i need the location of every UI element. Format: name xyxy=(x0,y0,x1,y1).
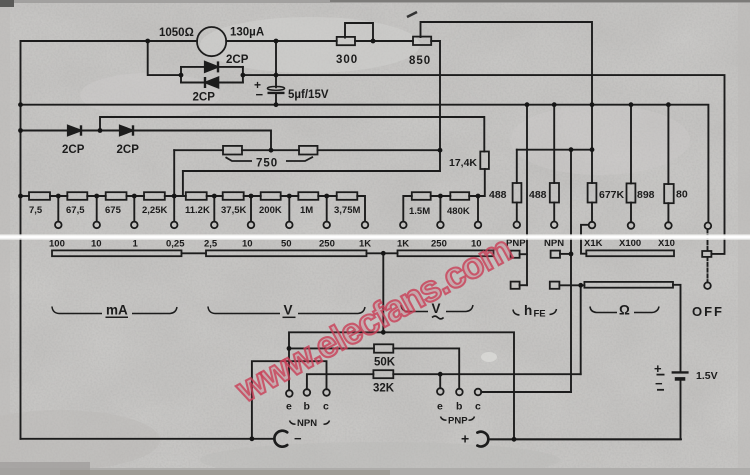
svg-text:2CP: 2CP xyxy=(62,144,85,156)
svg-text:67,5: 67,5 xyxy=(66,205,85,216)
wire: 488b vertical xyxy=(553,105,555,183)
PNP socket c xyxy=(475,389,482,396)
V bracket xyxy=(208,307,280,314)
wire: top main line meter to 300 xyxy=(226,40,336,42)
svg-text:3,75M: 3,75M xyxy=(334,205,360,216)
wire: contact drops mA section xyxy=(57,196,59,222)
minus terminal arc xyxy=(274,431,287,447)
PNP socket b xyxy=(456,389,463,396)
svg-text:2CP: 2CP xyxy=(117,144,140,156)
wire: left border vertical xyxy=(20,41,22,439)
wire: minus to NPN c line y361 xyxy=(252,361,327,439)
wire: battery minus down to bottom line xyxy=(491,381,681,439)
svg-text:h: h xyxy=(524,303,532,318)
wire: 898 vertical xyxy=(630,105,632,184)
resistor 675 xyxy=(106,192,127,200)
junction dots xyxy=(145,39,150,44)
mA bracket xyxy=(52,307,102,314)
wire: line y117 to 17.4K xyxy=(100,117,484,152)
resistor 7.5 xyxy=(29,192,50,200)
wire: 750 line left end down to chain xyxy=(173,150,175,196)
svg-text:32K: 32K xyxy=(373,383,395,395)
contact square PNP1 xyxy=(511,251,520,258)
wire: long line y104.7 xyxy=(21,105,709,222)
resistor 3.75M xyxy=(337,192,358,200)
battery B1 plate short xyxy=(675,377,686,381)
V~ bracket xyxy=(401,305,428,312)
wire: long line y75 from diode node to right edge area xyxy=(243,75,725,254)
resistor 200K xyxy=(261,192,281,200)
wire: top main line 300 to 850 xyxy=(355,40,413,42)
wire: diode pair left rail xyxy=(180,67,182,83)
resistor 17.4K xyxy=(480,152,489,170)
svg-text:1.5M: 1.5M xyxy=(409,206,430,217)
svg-text:+: + xyxy=(461,431,469,447)
wire: 750 line y150.2 xyxy=(174,149,223,151)
meter M1 130uA xyxy=(197,27,226,56)
wire: top main line left of meter xyxy=(21,40,198,42)
resistor 32K xyxy=(373,370,393,378)
wire: x289 vertical to NPN e xyxy=(288,348,290,390)
wire: 677K to X1K contact xyxy=(591,203,593,222)
svg-text:0,25: 0,25 xyxy=(166,239,185,250)
wire: 488a vertical top xyxy=(516,150,518,183)
white scan stripe xyxy=(0,235,750,239)
wire: 850 right end then down to y171 xyxy=(431,41,440,171)
svg-text:e: e xyxy=(286,401,292,413)
diode D2 2CP (points left) xyxy=(205,77,218,87)
resistor 11.2K xyxy=(186,192,207,200)
svg-text:−: − xyxy=(294,431,302,446)
wire: bar1-bar2 link xyxy=(182,252,207,254)
svg-text:17,4K: 17,4K xyxy=(449,157,477,169)
OFF contact circle top xyxy=(705,223,712,230)
svg-text:37,5K: 37,5K xyxy=(221,205,246,216)
white correction blob xyxy=(481,352,497,362)
wire: plus terminal line to battery corner xyxy=(491,438,682,440)
svg-text:250: 250 xyxy=(431,239,447,250)
svg-text:Ω: Ω xyxy=(619,303,630,318)
wire: bottom-left line to minus terminal xyxy=(21,438,273,440)
svg-text:50K: 50K xyxy=(374,357,396,369)
resistor 480K xyxy=(450,192,469,200)
wire: PNP e drop xyxy=(439,374,441,388)
svg-text:NPN: NPN xyxy=(297,418,317,429)
750 decorative ticks xyxy=(226,157,253,161)
wire: PNP2 contact link xyxy=(520,284,527,286)
wire: chain right end drop to contact xyxy=(357,196,365,222)
resistor 750 box1 xyxy=(223,146,242,155)
hFE bracket xyxy=(513,310,520,316)
resistor 1.5M xyxy=(412,192,431,200)
bottom edge shading xyxy=(0,468,750,475)
diode D4 2CP (points right) xyxy=(120,126,133,136)
wire: 50K line xyxy=(289,347,374,349)
wire: NPN1 contact to x571 xyxy=(560,253,571,255)
svg-text:750: 750 xyxy=(256,158,278,170)
wire: V~ chain right + jog up to 17.4K xyxy=(469,169,485,196)
svg-text:OFF: OFF xyxy=(692,304,724,319)
svg-text:1050Ω: 1050Ω xyxy=(159,27,194,39)
resistor 80 xyxy=(664,184,674,203)
svg-text:11.2K: 11.2K xyxy=(185,205,210,216)
wire: diode pair top rail xyxy=(181,66,243,68)
wire: x527 vertical to hFE contacts xyxy=(526,105,528,286)
resistor 1M xyxy=(298,192,318,200)
wire: OFF dashed link lower xyxy=(707,257,709,282)
wire: diode line y130.5 xyxy=(21,131,272,151)
NPN bracket ticks xyxy=(290,421,296,425)
svg-text:−: − xyxy=(256,87,264,102)
svg-text:130µA: 130µA xyxy=(230,27,264,39)
stray mark top xyxy=(407,12,417,17)
resistor 850 xyxy=(413,37,431,45)
NPN socket e xyxy=(286,390,293,397)
svg-text:1.5V: 1.5V xyxy=(696,370,718,382)
contact square NPN1 xyxy=(551,251,560,258)
svg-text:488: 488 xyxy=(529,189,547,201)
wire: PNP c to x571 xyxy=(481,391,571,393)
switch contact circles row1 xyxy=(55,222,62,229)
resistor 898 xyxy=(627,183,636,202)
plus terminal arc xyxy=(477,432,488,447)
svg-text:300: 300 xyxy=(336,54,358,66)
svg-text:FE: FE xyxy=(534,309,546,320)
selector bar ohm row1 xyxy=(586,250,674,256)
svg-text:2,5: 2,5 xyxy=(204,239,218,250)
wire: 488a to PNP contact xyxy=(516,203,518,222)
wire: diode pair bottom rail xyxy=(181,82,243,84)
svg-text:10: 10 xyxy=(242,239,253,250)
svg-text:PNP: PNP xyxy=(448,416,468,427)
resistor 677K xyxy=(588,183,597,203)
svg-text:1K: 1K xyxy=(397,239,409,250)
svg-text:50: 50 xyxy=(281,239,292,250)
dark left column xyxy=(0,0,10,475)
resistor 37.5K xyxy=(223,192,244,200)
svg-text:mA: mA xyxy=(106,303,128,318)
svg-text:200K: 200K xyxy=(259,205,282,216)
svg-text:+: + xyxy=(654,361,662,376)
wire: ohm bar2 right to battery vertical xyxy=(673,285,681,372)
svg-text:V: V xyxy=(284,303,293,318)
wire: x580.7 vertical to 32K line xyxy=(580,285,582,374)
wire: y332 line xyxy=(289,332,514,439)
wire: 50K right to PNP b xyxy=(393,348,459,388)
light patch top center xyxy=(200,17,420,73)
svg-text:100: 100 xyxy=(49,239,65,250)
NPN socket c xyxy=(323,389,330,396)
battery plus underline xyxy=(657,374,665,376)
svg-text:c: c xyxy=(475,401,481,413)
wire: NPN b to 32K line xyxy=(307,374,374,389)
resistor 488 a xyxy=(513,183,522,203)
svg-text:1: 1 xyxy=(133,239,139,250)
ohm bracket xyxy=(590,307,617,313)
contact square PNP2 xyxy=(511,282,520,289)
wire: 80 vertical xyxy=(667,105,669,184)
wire: diode pair right rail xyxy=(242,67,244,83)
resistor 750 box2 xyxy=(299,146,318,155)
wire: NPN2 contact to ohm bar2 xyxy=(559,284,584,286)
wire: resistor chain base y196 xyxy=(21,195,30,197)
resistor 300 xyxy=(337,37,355,45)
contact square OFF xyxy=(702,251,711,257)
svg-text:1K: 1K xyxy=(359,239,371,250)
resistor 2.25K xyxy=(144,192,165,200)
battery B1 plate long xyxy=(672,371,689,373)
wire: 750 line right of box2 to x440 xyxy=(318,149,441,151)
wire: y171 left end down to chain xyxy=(182,171,184,196)
wire: X1K contact link to ohm bar xyxy=(581,225,589,254)
capacitor C1 5uf/15V xyxy=(267,87,284,91)
wire: 750 line between boxes xyxy=(242,149,299,151)
wire: bar junction down to y332 xyxy=(382,253,384,332)
svg-text:250: 250 xyxy=(319,239,335,250)
wire: meter branch down at x147.7 xyxy=(148,41,181,75)
resistor 67.5 xyxy=(67,192,87,200)
svg-text:10: 10 xyxy=(91,239,102,250)
PNP socket e xyxy=(437,388,444,395)
top edge shading xyxy=(0,0,750,3)
svg-text:5µf/15V: 5µf/15V xyxy=(288,89,329,101)
selector bar V xyxy=(206,250,367,256)
resistor 50K xyxy=(374,344,393,352)
wire: capacitor bottom to line y104.7 xyxy=(275,93,277,105)
diode D3 2CP (points right) xyxy=(68,126,81,136)
svg-text:7,5: 7,5 xyxy=(29,205,43,216)
wire: OFF dashed link upper xyxy=(707,229,709,251)
svg-text:2,25K: 2,25K xyxy=(142,205,167,216)
dark patch bottom left xyxy=(0,410,160,470)
NPN socket b xyxy=(304,389,311,396)
svg-text:−: − xyxy=(655,376,663,391)
svg-text:850: 850 xyxy=(409,55,431,67)
svg-text:b: b xyxy=(456,401,462,413)
wire: V~ chain left end from contact xyxy=(403,196,412,222)
wire: PNP1 contact link xyxy=(520,253,527,255)
svg-text:80: 80 xyxy=(676,189,688,201)
svg-text:2CP: 2CP xyxy=(226,54,249,66)
svg-text:488: 488 xyxy=(489,189,507,201)
resistor 488 b xyxy=(550,183,559,203)
selector bar mA xyxy=(52,250,182,256)
svg-text:c: c xyxy=(323,401,329,413)
svg-text:1M: 1M xyxy=(300,205,313,216)
PNP bracket ticks xyxy=(441,417,447,421)
selector bar V~ xyxy=(398,250,494,256)
svg-text:b: b xyxy=(304,401,310,413)
svg-text:898: 898 xyxy=(637,189,655,201)
battery minus underline xyxy=(657,389,664,391)
wire: bar2-bar3 link xyxy=(367,252,398,254)
wire: y149.7 line right section xyxy=(517,149,592,151)
OFF contact circle bottom xyxy=(704,282,711,289)
dark right column xyxy=(738,0,750,475)
wire: contact drops V~ section xyxy=(439,196,441,222)
wire: capacitor vertical from main line xyxy=(275,41,277,87)
svg-text:675: 675 xyxy=(105,205,122,216)
diode D1 2CP (points right) xyxy=(205,62,218,72)
svg-text:2CP: 2CP xyxy=(193,92,216,104)
svg-text:e: e xyxy=(437,401,443,413)
wire: 300 top loop xyxy=(345,23,373,41)
watermark www.elecfans.com xyxy=(228,228,517,411)
wire: 850 top loop to x592 xyxy=(421,22,593,183)
wire: line y171 xyxy=(183,170,440,172)
wire: 32K right line to x580 xyxy=(393,373,580,375)
wire: x571 long vertical xyxy=(570,150,572,392)
svg-text:480K: 480K xyxy=(447,206,470,217)
selector bar ohm row2 xyxy=(584,282,673,288)
wire: V~ chain between 1.5M and 480K xyxy=(431,195,451,197)
svg-text:677K: 677K xyxy=(599,189,625,201)
contact square NPN2 xyxy=(550,282,560,289)
